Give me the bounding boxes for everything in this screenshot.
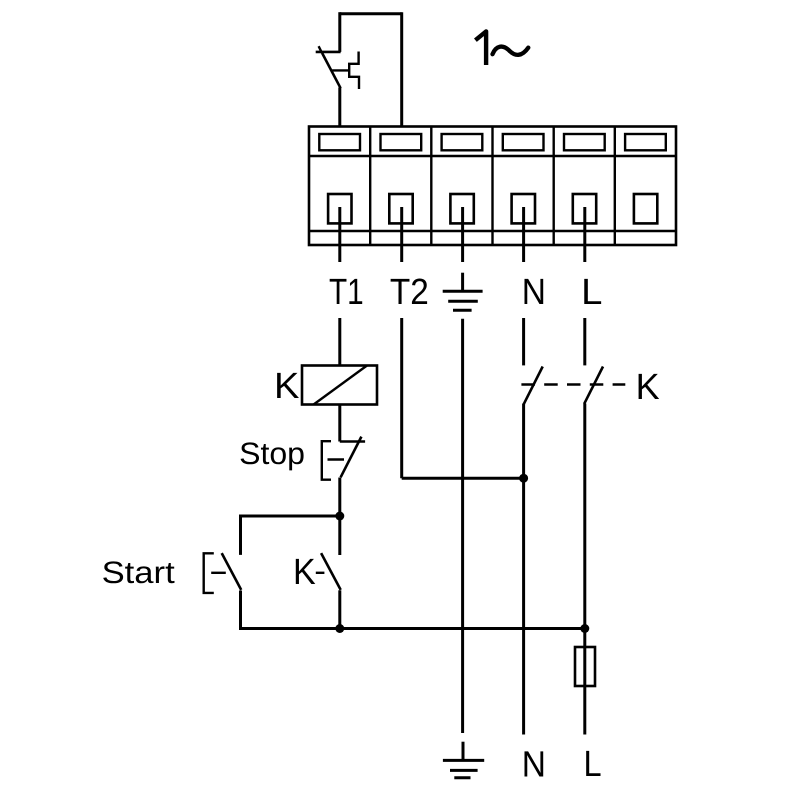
wire T2 down bbox=[400, 318, 403, 478]
wire node A to aux contact bbox=[338, 516, 341, 555]
terminal block divider 1 bbox=[369, 127, 371, 246]
aux contact K blade bbox=[321, 553, 341, 590]
contactor coil K bbox=[302, 366, 377, 405]
svg-text:K: K bbox=[293, 551, 316, 592]
node A junction dot bbox=[335, 512, 344, 521]
svg-text:Start: Start bbox=[102, 555, 176, 590]
wire motor loop top bar bbox=[340, 12, 402, 15]
wire PE down bbox=[461, 319, 464, 733]
thermal contact blade bbox=[322, 53, 341, 88]
wire T2 to N link bbox=[402, 477, 524, 480]
mechanical link dashed bbox=[521, 383, 625, 386]
svg-text:L: L bbox=[581, 271, 602, 312]
wire node A to start branch bbox=[241, 516, 340, 555]
terminal block divider 3 bbox=[491, 127, 493, 246]
start button actuator bbox=[204, 553, 226, 593]
wire motor loop right side to terminal 2 bbox=[400, 12, 403, 126]
terminal square 4 bbox=[512, 194, 535, 223]
thermal actuator element bbox=[349, 52, 359, 90]
terminal block divider 4 bbox=[553, 127, 555, 246]
svg-text:K: K bbox=[274, 365, 299, 406]
terminal block divider 2 bbox=[430, 127, 432, 246]
terminal block divider 5 bbox=[614, 127, 616, 246]
stop button actuator bbox=[322, 441, 344, 480]
ground PE upper bbox=[443, 273, 483, 311]
clamp window 3 bbox=[442, 134, 483, 150]
terminal square 1 bbox=[328, 194, 351, 223]
node D junction dot bbox=[519, 474, 528, 483]
wire bottom rail bbox=[241, 629, 585, 631]
clamp window 6 bbox=[625, 134, 666, 150]
wire N lower bbox=[522, 404, 525, 735]
main contact K on L blade bbox=[584, 367, 603, 404]
fuse bbox=[575, 647, 595, 686]
svg-text:Stop: Stop bbox=[239, 436, 305, 471]
svg-text:T1: T1 bbox=[329, 271, 364, 312]
main contact K on N blade bbox=[524, 367, 543, 404]
node C junction dot bbox=[580, 624, 589, 633]
wire coil to stop bbox=[338, 405, 341, 442]
svg-text:N: N bbox=[522, 744, 546, 785]
aux contact K dash bbox=[316, 572, 325, 574]
clamp window 2 bbox=[381, 134, 422, 150]
wire start to bottom rail bbox=[239, 591, 242, 629]
svg-text:L: L bbox=[584, 743, 602, 784]
terminal block bottom separator bbox=[309, 230, 676, 232]
thermal contact tick bbox=[319, 46, 322, 53]
wire thermal contact to terminal 1 bbox=[338, 88, 341, 127]
wire aux contact to node B bbox=[338, 590, 341, 628]
svg-text:T2: T2 bbox=[390, 271, 429, 312]
stop contact fixed tick bbox=[340, 440, 365, 442]
wire L lower bbox=[583, 404, 586, 735]
wire stop to node A bbox=[338, 478, 341, 517]
wire PE stub below block bbox=[461, 207, 464, 262]
terminal block top row separator bbox=[309, 155, 676, 157]
wire N upper bbox=[522, 318, 525, 365]
svg-text:N: N bbox=[522, 271, 546, 312]
clamp window 5 bbox=[564, 134, 605, 150]
thermal contact fixed terminal bbox=[316, 51, 341, 54]
wire L stub below block bbox=[583, 207, 586, 262]
clamp window 4 bbox=[503, 134, 544, 150]
start contact blade bbox=[222, 553, 242, 590]
stop contact blade bbox=[341, 437, 362, 478]
ground PE bottom bbox=[443, 742, 484, 778]
wire motor loop left side down bbox=[338, 12, 341, 52]
terminal square 3 bbox=[450, 194, 473, 223]
svg-text:K: K bbox=[636, 366, 660, 407]
thermal actuator link bbox=[332, 69, 349, 71]
terminal square 5 bbox=[573, 194, 596, 223]
terminal square 2 bbox=[389, 194, 412, 223]
wire T2 stub below block bbox=[400, 207, 403, 262]
terminal block outline bbox=[309, 127, 676, 246]
node B junction dot bbox=[335, 624, 344, 633]
label 1~ bbox=[475, 31, 528, 65]
wire T1 to coil bbox=[338, 318, 341, 366]
wire L upper bbox=[583, 318, 586, 365]
wire N stub below block bbox=[522, 207, 525, 262]
clamp window 1 bbox=[319, 134, 360, 150]
terminal square 6 bbox=[634, 194, 657, 223]
wire T1 stub below block bbox=[338, 207, 341, 262]
